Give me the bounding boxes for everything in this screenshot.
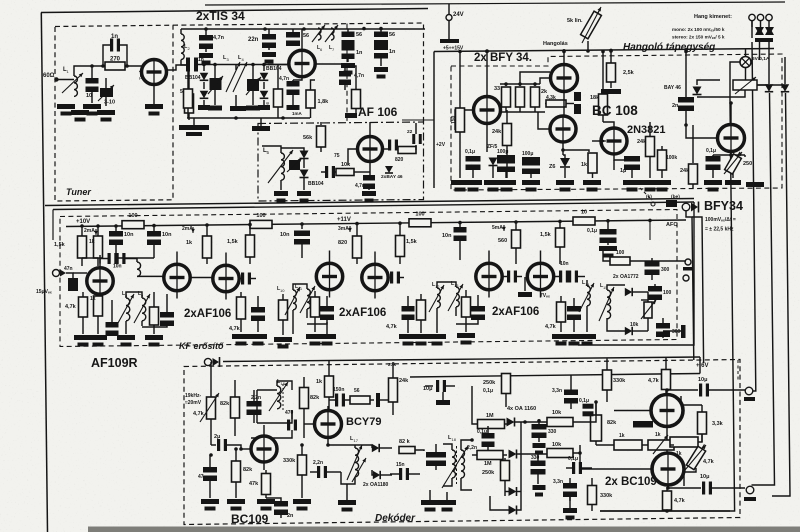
capacitor 0,1u mid	[482, 433, 495, 439]
svg-text:2μ: 2μ	[214, 434, 220, 440]
wire Q1 source to ground	[153, 85, 155, 105]
svg-text:1M: 1M	[486, 413, 494, 419]
resistor 250k lower	[501, 461, 510, 481]
ground	[421, 500, 439, 505]
inductor L2	[181, 34, 184, 60]
resistor 250k upper	[502, 374, 511, 394]
wire varicap cluster top bus	[197, 64, 289, 66]
wire Q5 base	[540, 78, 551, 84]
wire Q3 collector to top	[369, 122, 371, 137]
trimmer arrow L17	[352, 458, 366, 482]
KF section inner dashed box	[60, 210, 677, 347]
svg-text:1μ: 1μ	[620, 168, 626, 174]
capacitor bar small	[633, 421, 653, 428]
wire Q3 emitter	[369, 162, 371, 178]
svg-text:82 k: 82 k	[399, 439, 411, 445]
ground	[552, 334, 570, 339]
capacitor 0,1u right	[572, 462, 575, 474]
svg-text:24k: 24k	[637, 139, 647, 145]
resistor 1k	[588, 153, 597, 173]
ground	[297, 191, 311, 196]
ground	[438, 500, 456, 505]
resistor 1k row1	[614, 440, 642, 450]
resistor 150	[459, 52, 461, 109]
resistor 270	[105, 62, 125, 70]
ground	[145, 104, 163, 109]
svg-text:1,5k: 1,5k	[54, 242, 66, 248]
diode BB104 varicap second	[200, 91, 209, 99]
ground	[451, 180, 469, 185]
capacitor 3,3n lower	[563, 483, 577, 489]
ground	[345, 113, 357, 118]
capacitor 15n	[399, 468, 402, 480]
potentiometer 1k row	[648, 440, 674, 450]
svg-text:mono: 2x 100 mVₑₓ/50 k: mono: 2x 100 mVₑₓ/50 k	[672, 27, 725, 32]
resistor 1k stage1	[94, 296, 103, 316]
svg-text:100k: 100k	[666, 155, 677, 161]
capacitor 2n	[685, 52, 687, 99]
ground bar under connectors	[755, 38, 773, 42]
svg-text:BC109: BC109	[231, 512, 269, 526]
svg-text:10n: 10n	[124, 232, 134, 238]
wire long vertical right C	[784, 57, 786, 84]
svg-text:BCY79: BCY79	[346, 416, 381, 428]
resistor 1,5k second	[249, 225, 251, 235]
terminal audio out left	[749, 14, 755, 20]
resistor 10k upper	[547, 418, 573, 427]
capacitor 56 second	[342, 32, 355, 38]
trimmer capacitor AF106	[289, 160, 300, 170]
svg-text:1n: 1n	[198, 57, 204, 63]
svg-text:150: 150	[451, 115, 457, 124]
svg-text:2,5k: 2,5k	[623, 70, 635, 76]
capacitor stage3	[402, 306, 415, 312]
resistor 330k lower	[588, 486, 597, 505]
svg-text:100: 100	[415, 211, 424, 217]
capacitor 10	[91, 66, 93, 80]
wire stage stubs	[99, 255, 101, 268]
varicap diode pair	[781, 84, 789, 91]
svg-text:82k: 82k	[607, 420, 617, 426]
wire long vertical right A	[751, 21, 753, 38]
ground	[563, 508, 577, 513]
ground	[601, 89, 621, 94]
transistor Q4 BFY34	[474, 97, 501, 124]
inductor L8 variable	[126, 298, 130, 321]
svg-text:Hang kimenet:: Hang kimenet:	[694, 14, 732, 20]
wire Q7 gate	[598, 140, 606, 142]
inductor L12 variable	[437, 288, 440, 308]
varicap diode pair	[765, 84, 773, 91]
transistor KF stage Q12 AF106	[316, 263, 342, 289]
ground	[533, 485, 546, 490]
diode OA1160 d	[509, 506, 517, 515]
transistor Q16 BCY79	[315, 411, 342, 438]
wire lamp connections	[730, 62, 740, 103]
ground sideways bar	[746, 182, 764, 187]
svg-text:47k: 47k	[249, 481, 259, 487]
wire long vertical 730 down	[600, 103, 735, 511]
resistor 1,5k fourth	[559, 221, 561, 228]
svg-text:1n: 1n	[389, 49, 396, 55]
svg-text:10n: 10n	[113, 264, 122, 270]
ground	[262, 52, 276, 57]
diode 2xBAY46	[385, 166, 393, 173]
resistor 1,5k third	[399, 223, 401, 235]
wire decoder top feed	[223, 357, 700, 362]
svg-text:24k: 24k	[680, 168, 690, 174]
svg-text:0,1μ: 0,1μ	[477, 429, 487, 435]
capacitor 10n	[115, 226, 117, 231]
svg-text:250k: 250k	[483, 380, 496, 386]
ground	[578, 334, 596, 339]
bottom page edge band	[88, 527, 800, 532]
capacitor tank3	[471, 306, 485, 312]
capacitor 1u	[624, 156, 640, 162]
wire tank2	[293, 284, 307, 290]
resistor 330k decoder	[298, 455, 307, 475]
wire L17 net	[355, 444, 372, 446]
svg-text:1k: 1k	[90, 296, 96, 302]
resistor stage3	[417, 300, 426, 320]
wire L16 tank loop	[256, 390, 258, 423]
svg-text:56k: 56k	[303, 135, 313, 141]
ground	[246, 106, 260, 111]
svg-text:4,7n: 4,7n	[354, 73, 364, 79]
svg-text:10k: 10k	[341, 162, 351, 168]
wire separator between top section and KF amplifier	[45, 199, 694, 206]
svg-text:ZF/5: ZF/5	[487, 144, 497, 150]
capacitor 10u right top	[699, 384, 702, 397]
ground	[498, 180, 516, 185]
wire varicap bottom bus	[187, 117, 310, 119]
ground	[599, 246, 617, 251]
resistor 4,7k stage2	[237, 297, 246, 319]
diode OA1180 bottom	[373, 471, 380, 479]
wire det link down	[649, 220, 651, 240]
svg-text:250k: 250k	[482, 470, 495, 476]
capacitor 300 top	[645, 261, 660, 267]
diode BB104 varicap third	[263, 65, 265, 72]
wire pot to emitter	[668, 487, 701, 489]
resistor 100 bus third	[409, 219, 431, 227]
resistor 82k decoder2	[300, 388, 309, 409]
capacitor 0,1u output	[706, 156, 721, 162]
svg-text:4,7k: 4,7k	[386, 324, 398, 330]
capacitor 100	[648, 286, 662, 292]
wire stage stubs	[329, 251, 331, 264]
trimmer capacitor second	[252, 65, 254, 80]
resistor 1,5k	[81, 226, 83, 236]
resistor stage2b	[279, 300, 288, 320]
resistor 1k decoder	[325, 376, 334, 397]
ground	[412, 334, 430, 339]
svg-text:2xAF106: 2xAF106	[339, 307, 386, 319]
capacitor stage1	[106, 322, 119, 328]
svg-text:+2V: +2V	[436, 142, 446, 148]
ground	[341, 63, 355, 68]
svg-text:330k: 330k	[613, 378, 626, 384]
svg-text:56: 56	[356, 32, 362, 38]
wire Q2 drain to bus	[301, 29, 303, 50]
wire stage stubs	[176, 252, 178, 265]
diode OA1180 top	[372, 444, 379, 452]
AFC output jack	[682, 203, 690, 211]
ground	[249, 334, 267, 339]
svg-text:22n: 22n	[248, 37, 259, 43]
resistor stage4	[557, 302, 566, 322]
capacitor 470	[287, 420, 290, 431]
capacitor 330 lower	[531, 461, 546, 467]
resistor 33	[505, 84, 507, 86]
inductor L14 variable	[587, 286, 590, 306]
svg-text:4,7k: 4,7k	[674, 498, 686, 504]
ground under 10u	[436, 400, 450, 405]
ground	[623, 180, 641, 185]
svg-text:56: 56	[265, 101, 270, 107]
resistor tank right	[352, 90, 361, 109]
capacitor 22n	[268, 29, 270, 34]
svg-text:82k: 82k	[310, 395, 320, 401]
svg-text:10: 10	[280, 288, 285, 293]
KF input jack	[53, 270, 60, 277]
capacitor 0,1u upper mid	[583, 404, 594, 409]
svg-text:1k: 1k	[655, 432, 661, 438]
capacitor 1n series	[186, 58, 190, 72]
svg-text:820: 820	[338, 240, 347, 246]
inductor L10 variable	[293, 290, 296, 310]
wire Q5 emitter to Q6	[563, 92, 565, 117]
resistor 82k decoder3	[232, 461, 241, 482]
svg-text:10: 10	[581, 210, 587, 216]
wire frame left	[41, 13, 47, 532]
inductor L13 variable	[456, 287, 459, 307]
svg-text:0,1μ: 0,1μ	[483, 388, 493, 394]
capacitor stage4	[567, 306, 581, 312]
wire stage stubs	[374, 252, 376, 265]
wire Q2 source chain	[293, 77, 302, 80]
wire link	[82, 257, 98, 259]
resistor 10 bus fourth	[573, 217, 595, 225]
capacitor at AFC	[666, 200, 677, 207]
transistor Q6 BC108	[550, 116, 576, 142]
svg-text:AF 106: AF 106	[358, 105, 398, 119]
svg-text:+11V: +11V	[337, 217, 351, 223]
wire Q8 collector	[730, 103, 732, 125]
svg-text:2mA: 2mA	[84, 228, 95, 234]
wire decoder right bus	[410, 374, 700, 378]
wire dashed +6V drop	[737, 360, 739, 380]
svg-text:10μ: 10μ	[700, 474, 709, 480]
svg-text:100μ: 100μ	[522, 151, 533, 157]
svg-text:560: 560	[498, 238, 507, 244]
capacitor 10n second	[153, 226, 155, 231]
resistor 1k	[97, 226, 99, 236]
ground	[274, 191, 288, 196]
diode BB104 varicap fourth	[260, 91, 269, 99]
wire KF supply bus	[66, 220, 686, 227]
transistor KF stage Q10 AF106	[164, 264, 190, 290]
potentiometer 250	[725, 150, 744, 174]
svg-text:0,1μ: 0,1μ	[706, 148, 716, 154]
inductor L1	[74, 76, 77, 96]
svg-text:100: 100	[616, 250, 625, 256]
KF section left edge stub	[52, 210, 54, 241]
resistor 10k lower	[547, 449, 573, 458]
svg-text:4,7k: 4,7k	[648, 378, 660, 384]
wire stage stubs	[540, 251, 542, 264]
svg-text:2x BC109: 2x BC109	[605, 476, 657, 488]
svg-text:300: 300	[661, 267, 670, 273]
capacitor 2,2n right of L16	[426, 452, 446, 458]
svg-text:Hangoló tápegység: Hangoló tápegység	[623, 42, 715, 53]
svg-text:100mVₑₓ/Δf =: 100mVₑₓ/Δf =	[705, 217, 736, 223]
ground	[89, 335, 107, 340]
svg-text:4,7n: 4,7n	[279, 76, 289, 82]
capacitor 2,2n decoder	[247, 401, 262, 407]
svg-text:18k: 18k	[590, 95, 600, 101]
wire stage stubs	[225, 253, 227, 266]
svg-text:24k: 24k	[399, 378, 409, 384]
wire supply bus TIS34 section	[181, 28, 425, 30]
wire dashed AFC link	[640, 188, 652, 200]
ground	[362, 191, 376, 196]
resistor 2k	[531, 87, 540, 107]
svg-text:10: 10	[86, 93, 92, 99]
transistor Q8 BFY34 output	[718, 125, 745, 152]
wire detector net	[607, 285, 625, 290]
connector plug symbol	[765, 27, 774, 35]
ground	[274, 337, 292, 342]
svg-text:330k: 330k	[600, 493, 613, 499]
capacitor 10n third	[301, 224, 303, 229]
transistor Q5 BFY34 second	[551, 65, 578, 92]
Decoder dashed box	[184, 360, 740, 525]
svg-text:≈20mV: ≈20mV	[185, 400, 202, 406]
svg-text:33: 33	[494, 86, 500, 92]
wire AFC jack stem	[686, 211, 694, 360]
resistor 10k AF106	[336, 169, 354, 176]
svg-text:AF109R: AF109R	[91, 356, 138, 370]
resistor 56 decoder	[350, 396, 370, 404]
svg-text:2x OA1180: 2x OA1180	[363, 482, 389, 488]
ground	[583, 180, 601, 185]
wire BCY79 connections	[327, 406, 329, 411]
wire bias network	[500, 83, 540, 85]
svg-text:82k: 82k	[243, 467, 253, 473]
capacitor 47	[209, 455, 211, 468]
svg-text:27k: 27k	[388, 362, 396, 368]
potentiometer 5k lin tuning	[581, 7, 604, 39]
capacitor 3,3n upper	[564, 390, 578, 396]
svg-text:2,2n: 2,2n	[251, 395, 261, 401]
potentiometer 4,7k right	[686, 442, 708, 470]
resistor 1M lower	[477, 451, 503, 460]
capacitor 10u horizontal	[436, 380, 439, 392]
svg-text:4,3k: 4,3k	[546, 95, 556, 101]
resistor 1,8k	[306, 90, 315, 108]
svg-text:2n: 2n	[672, 103, 679, 109]
svg-text:BFY34: BFY34	[704, 199, 743, 213]
ground	[258, 105, 270, 110]
diode OA1772 bottom	[625, 327, 632, 335]
svg-text:+10V: +10V	[76, 219, 90, 225]
wire Q2 gate	[268, 64, 289, 66]
resistor 100k	[658, 150, 667, 170]
resistor 3,3k	[698, 412, 707, 434]
resistor 47k	[262, 474, 271, 495]
wire Q3 base	[348, 149, 358, 165]
resistor 560	[515, 222, 517, 230]
svg-text:10μ: 10μ	[423, 386, 432, 392]
svg-text:2xAF106: 2xAF106	[492, 306, 539, 318]
svg-text:10n: 10n	[442, 233, 452, 239]
capacitor 150n	[335, 394, 338, 407]
wire Q6 base	[538, 112, 550, 129]
resistor 56k second	[184, 89, 193, 108]
svg-text:1k: 1k	[619, 433, 625, 439]
svg-text:19kHz-: 19kHz-	[185, 393, 201, 399]
resistor 4,7k stage1	[79, 297, 88, 317]
capacitor 4,7n AF106	[363, 175, 375, 181]
transistor Q17 BC109	[251, 436, 277, 462]
capacitor interstage 10n	[108, 253, 111, 264]
wire L5 connections	[262, 146, 281, 153]
wire Q8 emitter	[730, 152, 732, 156]
ground	[230, 106, 246, 111]
ground	[641, 180, 659, 185]
svg-text:3,3n: 3,3n	[553, 479, 563, 485]
svg-text:100: 100	[128, 213, 137, 219]
svg-text:Z6: Z6	[549, 164, 555, 170]
svg-text:22: 22	[407, 129, 413, 135]
KF section outer solid top	[53, 202, 694, 210]
wire Q4 emitter	[486, 124, 488, 153]
svg-text:1n: 1n	[111, 34, 118, 40]
svg-text:47: 47	[198, 474, 204, 480]
wire Q6 emitter	[562, 143, 564, 156]
svg-text:7Vₑₓ: 7Vₑₓ	[540, 293, 550, 299]
capacitor interstage 5	[559, 271, 562, 283]
terminal 24V	[446, 15, 452, 21]
ground	[74, 335, 92, 340]
wire long vertical right B	[768, 60, 770, 84]
ground	[57, 104, 75, 109]
diode OA1160 c	[509, 487, 517, 496]
resistor 820 AF106	[383, 148, 389, 150]
ground	[399, 334, 417, 339]
svg-text:10n: 10n	[162, 232, 172, 238]
ground between stages	[524, 277, 526, 291]
svg-text:3,3n: 3,3n	[552, 388, 562, 394]
capacitor supply bar	[440, 39, 459, 43]
capacitor 100u second	[522, 157, 540, 161]
svg-text:4,7k: 4,7k	[229, 326, 241, 332]
transistor Q2 TIS34 fet	[289, 50, 315, 76]
capacitor 330 upper	[532, 424, 547, 430]
ground	[428, 334, 446, 339]
transistor KF stage Q9 AF106	[87, 268, 113, 294]
resistor 1M upper	[478, 420, 505, 429]
wire top supply line	[205, 2, 785, 5]
svg-text:Dekóder: Dekóder	[375, 513, 416, 524]
resistor tank3	[462, 297, 471, 317]
ground	[287, 105, 300, 110]
wire Q18 collector	[666, 390, 668, 395]
resistor 82k decoder1	[231, 397, 240, 418]
capacitor tank1	[160, 312, 174, 318]
svg-text:3-10: 3-10	[104, 100, 115, 106]
